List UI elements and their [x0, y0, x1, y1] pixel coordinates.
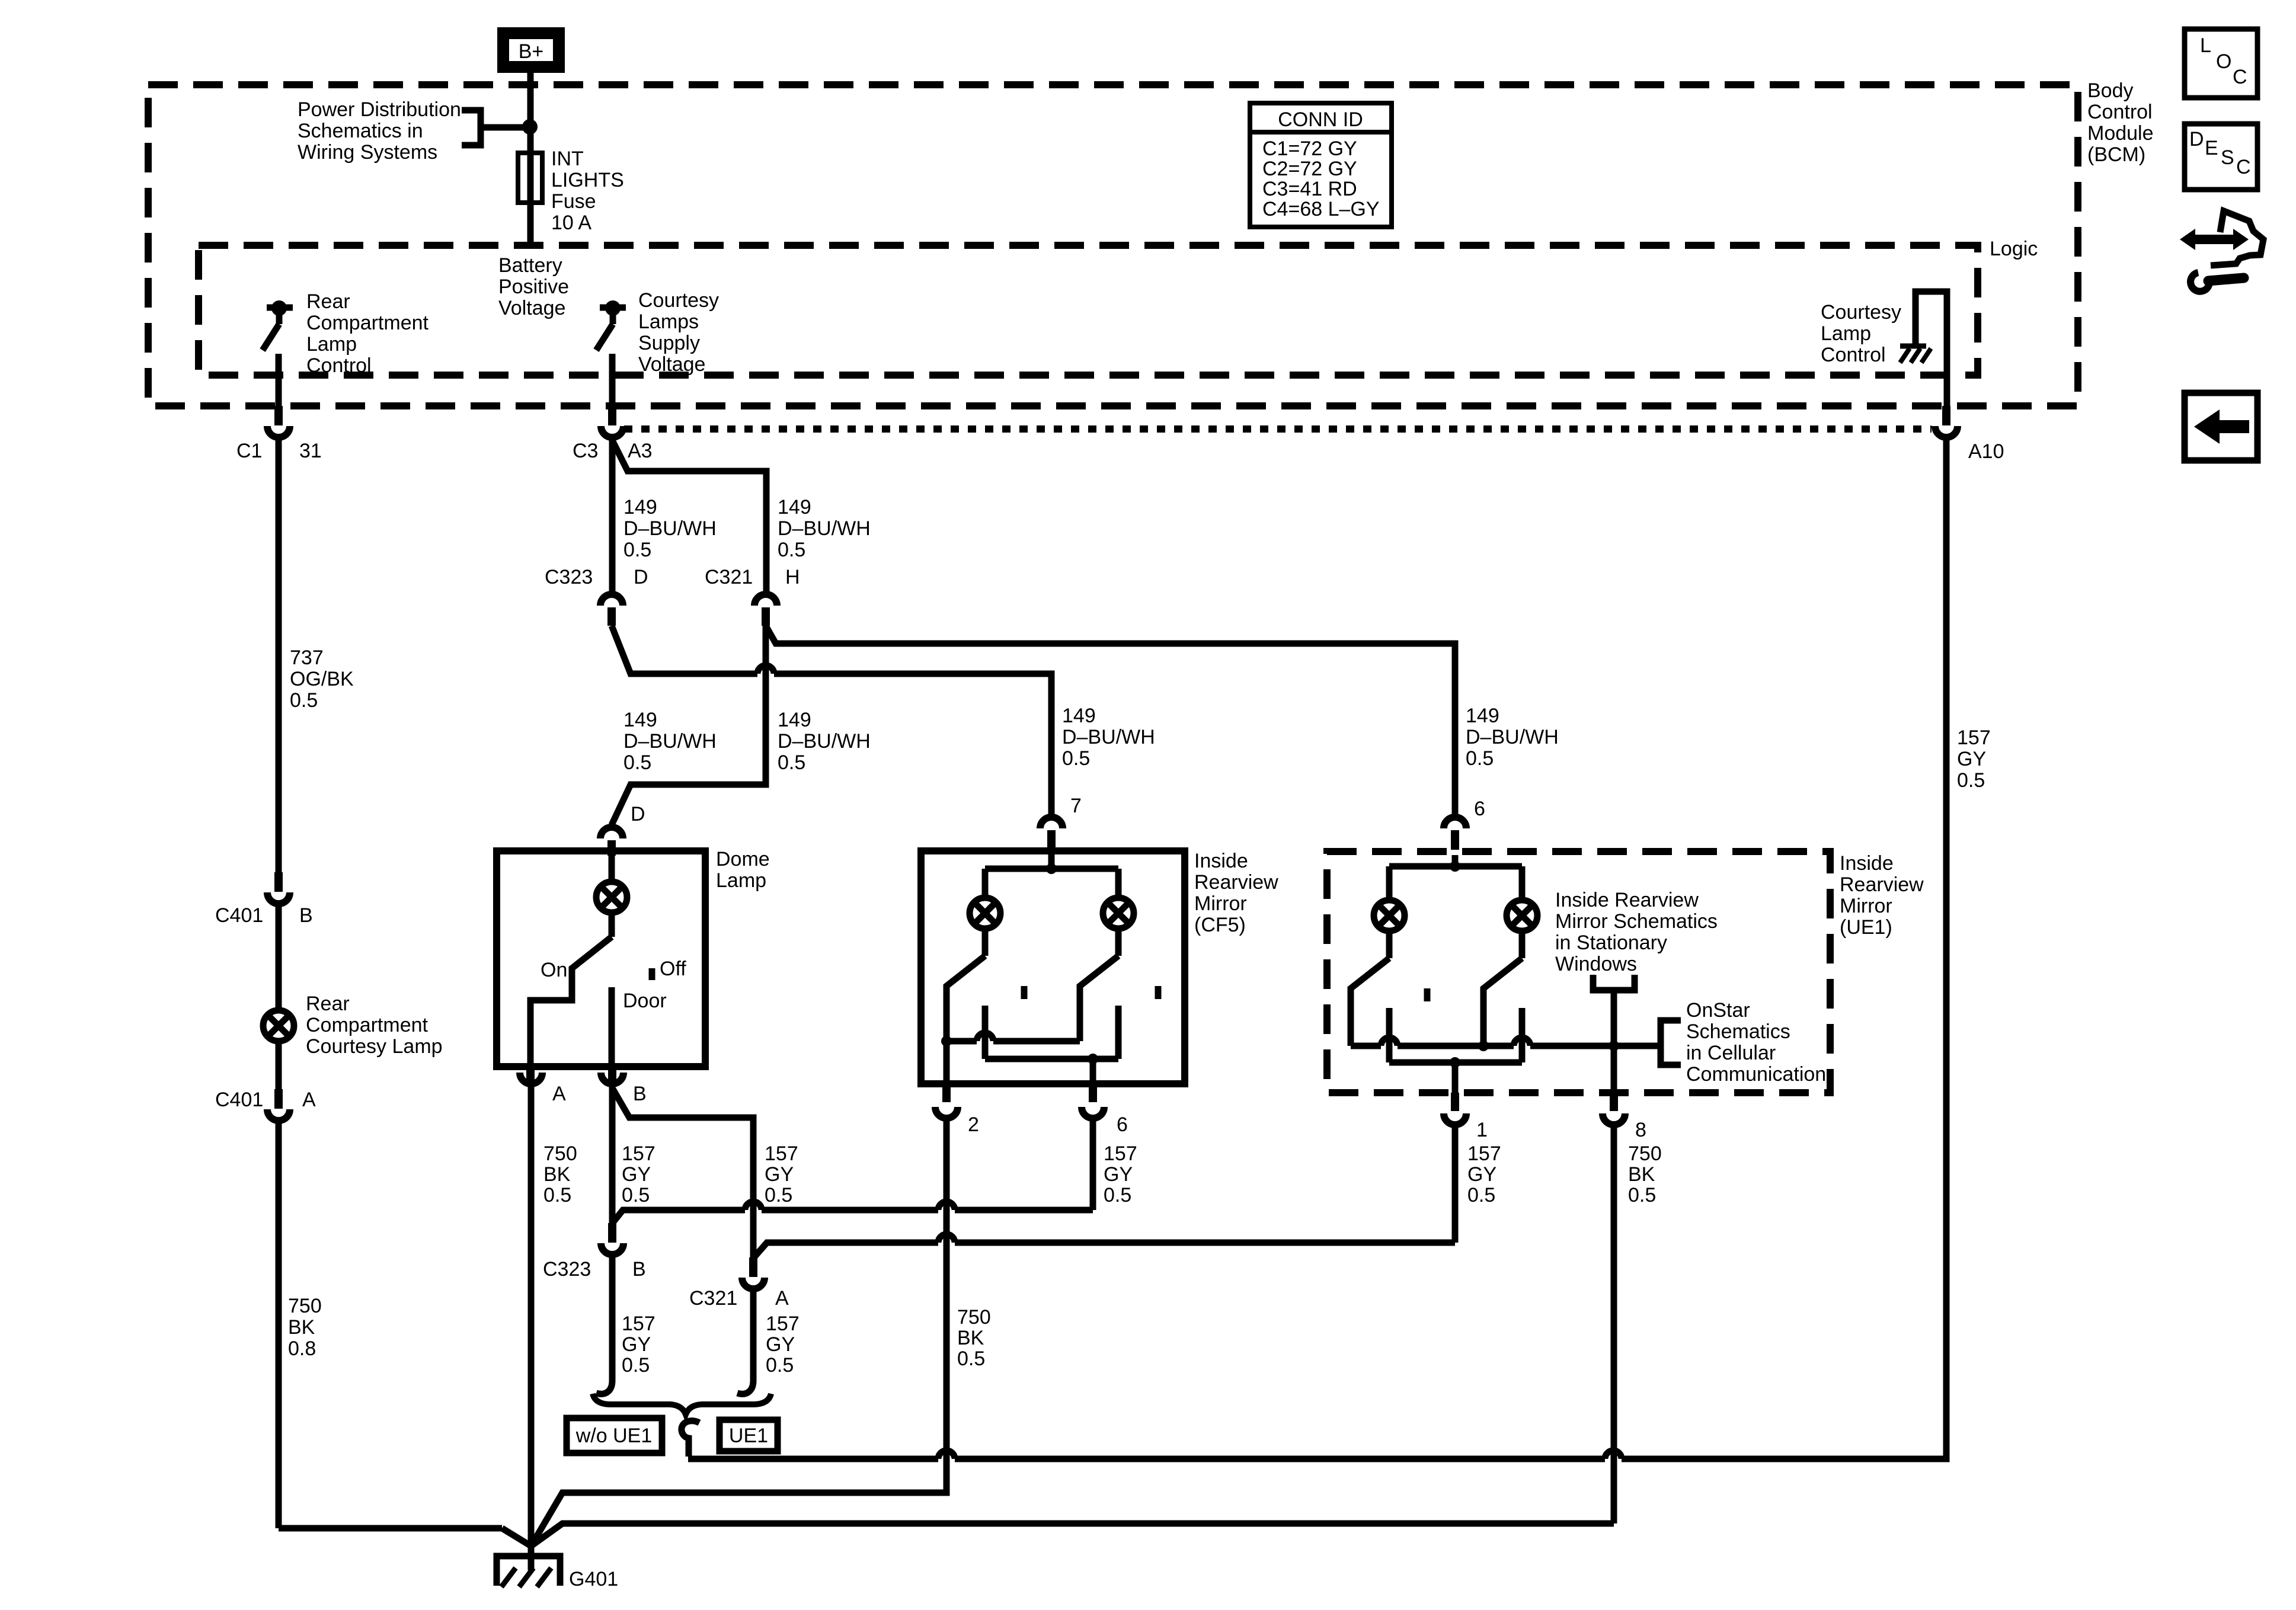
svg-text:C3: C3: [573, 440, 598, 462]
svg-text:0.5: 0.5: [1957, 769, 1985, 792]
svg-text:Courtesy: Courtesy: [638, 289, 719, 312]
wire 149 D-BU/WH C321H to UE1 pin 6: [766, 626, 1455, 814]
svg-text:C2=72 GY: C2=72 GY: [1262, 158, 1357, 180]
svg-text:157: 157: [622, 1313, 655, 1335]
connector UE1 pin 6: [1444, 817, 1466, 828]
svg-text:H: H: [785, 566, 800, 588]
connector C401 pin B: [274, 872, 283, 892]
option box UE1: [720, 1420, 778, 1451]
svg-text:Mirror: Mirror: [1840, 895, 1892, 917]
svg-text:Module: Module: [2087, 122, 2154, 145]
wire 149 D-BU/WH C323D to CF5 pin 7: [612, 626, 757, 674]
svg-text:C: C: [2233, 66, 2247, 88]
svg-text:A3: A3: [628, 440, 653, 462]
lamp: Rear Compartment Courtesy Lamp: [263, 1010, 294, 1041]
svg-text:GY: GY: [766, 1333, 795, 1356]
logic Courtesy Lamp Control ground hook: [1916, 292, 1947, 406]
svg-text:0.5: 0.5: [543, 1184, 571, 1206]
svg-text:149: 149: [623, 709, 657, 731]
svg-text:B: B: [633, 1083, 647, 1105]
svg-text:10 A: 10 A: [551, 212, 591, 234]
dome lamp bulb: [596, 882, 627, 913]
svg-text:750: 750: [1628, 1142, 1662, 1165]
svg-text:UE1: UE1: [729, 1425, 768, 1447]
svg-text:B+: B+: [519, 40, 544, 63]
connector C323 pin D: [600, 594, 623, 606]
CF5 left switch blade: [982, 929, 989, 956]
wire 750 BK 0.5 CF5 pin2 to G401: [531, 1121, 946, 1546]
svg-text:D–BU/WH: D–BU/WH: [1466, 726, 1559, 748]
connector CF5 pin 7: [1040, 817, 1063, 828]
svg-text:Schematics: Schematics: [1686, 1020, 1790, 1043]
svg-text:in Cellular: in Cellular: [1686, 1042, 1776, 1064]
back-arrow sidebar icon: [2185, 393, 2257, 460]
UE1 right lamp: [1507, 900, 1537, 931]
svg-text:D–BU/WH: D–BU/WH: [623, 730, 717, 753]
svg-text:D–BU/WH: D–BU/WH: [778, 730, 871, 753]
svg-text:6: 6: [1474, 798, 1485, 820]
svg-text:D–BU/WH: D–BU/WH: [623, 517, 717, 540]
connector C323 pin B: [608, 1223, 616, 1243]
svg-text:GY: GY: [622, 1333, 651, 1356]
CF5 internal supply node: [1048, 854, 1055, 869]
svg-text:A: A: [302, 1089, 316, 1111]
svg-text:0.8: 0.8: [288, 1337, 316, 1360]
switch: Courtesy Lamps Supply Voltage: [600, 305, 626, 311]
svg-text:D: D: [2189, 128, 2204, 151]
LOC sidebar icon: [2185, 29, 2257, 98]
wire 750 BK UE1 pin8 to G401: [1611, 1128, 1617, 1523]
svg-text:0.5: 0.5: [957, 1347, 985, 1370]
svg-text:0.5: 0.5: [1104, 1184, 1131, 1206]
dome lamp Door contact: [609, 987, 615, 1067]
connector A10: [1942, 406, 1950, 425]
connector C1 pin 31: [274, 406, 283, 425]
svg-text:A: A: [775, 1287, 789, 1310]
svg-text:Mirror: Mirror: [1194, 892, 1247, 915]
svg-text:Supply: Supply: [638, 332, 700, 354]
svg-text:157: 157: [622, 1142, 655, 1165]
svg-text:w/o UE1: w/o UE1: [575, 1425, 653, 1447]
svg-text:0.5: 0.5: [766, 1354, 794, 1377]
svg-text:Battery: Battery: [498, 254, 562, 277]
svg-text:0.5: 0.5: [622, 1354, 650, 1377]
svg-text:Door: Door: [623, 990, 667, 1012]
svg-text:C: C: [2236, 156, 2251, 178]
svg-text:GY: GY: [765, 1163, 794, 1186]
svg-text:D–BU/WH: D–BU/WH: [1062, 726, 1155, 748]
connector C321 pin A: [749, 1257, 757, 1277]
UE1 fixed contacts: [1386, 1008, 1393, 1062]
BCM A-connector dotted boundary line: [624, 425, 1932, 433]
svg-text:BK: BK: [957, 1327, 984, 1349]
svg-text:Voltage: Voltage: [638, 353, 705, 376]
svg-text:0.5: 0.5: [778, 539, 805, 561]
svg-text:149: 149: [778, 496, 811, 518]
svg-text:(CF5): (CF5): [1194, 914, 1246, 936]
wire 157 GY 0.5 below C323 B: [609, 1257, 616, 1381]
svg-text:C401: C401: [215, 1089, 263, 1111]
svg-text:Communication: Communication: [1686, 1063, 1826, 1086]
svg-text:BK: BK: [288, 1316, 315, 1339]
option pigtail: [682, 1421, 699, 1457]
svg-text:157: 157: [1467, 1142, 1501, 1165]
svg-text:750: 750: [543, 1142, 577, 1165]
svg-text:Control: Control: [2087, 101, 2153, 123]
Logic dashed box: [199, 245, 1978, 375]
connector CF5 pin 6: [1089, 1084, 1097, 1102]
svg-text:Wiring Systems: Wiring Systems: [298, 141, 437, 164]
wire switch to C1: [276, 354, 282, 406]
wire C401B to lamp: [276, 907, 282, 1007]
CF5 right switch blade: [1115, 929, 1122, 956]
svg-text:OnStar: OnStar: [1686, 999, 1750, 1022]
UE1 internal supply node: [1452, 855, 1459, 866]
ground symbol G401: [497, 1556, 560, 1586]
svg-text:D: D: [631, 803, 645, 825]
UE1 right switch blade: [1519, 931, 1526, 958]
logic internal ground symbol: [1900, 344, 1926, 349]
svg-text:Fuse: Fuse: [551, 190, 596, 213]
svg-text:Courtesy Lamp: Courtesy Lamp: [306, 1035, 443, 1058]
svg-text:0.5: 0.5: [623, 751, 651, 774]
svg-text:Power Distribution: Power Distribution: [298, 98, 461, 121]
svg-text:G401: G401: [569, 1568, 618, 1590]
ground junction: [528, 1546, 535, 1570]
svg-text:157: 157: [1104, 1142, 1137, 1165]
wire option line to BCM A10: [688, 1456, 938, 1462]
UE1 switch tick: [1424, 988, 1431, 1001]
connector CF5 pin 2: [944, 1041, 950, 1084]
svg-text:0.5: 0.5: [1628, 1184, 1656, 1206]
Inside Rearview Mirror (CF5) box: [921, 851, 1185, 1084]
svg-text:B: B: [632, 1258, 646, 1281]
svg-text:Rear: Rear: [306, 993, 350, 1015]
svg-text:31: 31: [299, 440, 322, 462]
wire 157 GY 0.5 below C321 A: [750, 1292, 757, 1381]
svg-text:A: A: [552, 1083, 566, 1105]
bracket: OnStar Schematics in Cellular Communication: [1661, 1020, 1681, 1065]
svg-text:GY: GY: [1104, 1163, 1133, 1186]
svg-text:149: 149: [778, 709, 811, 731]
svg-text:E: E: [2205, 137, 2218, 159]
svg-text:C321: C321: [705, 566, 753, 588]
wire B+ to INT LIGHTS fuse to Logic: [527, 73, 534, 248]
svg-text:Off: Off: [660, 958, 686, 980]
svg-text:149: 149: [623, 496, 657, 518]
svg-text:6: 6: [1117, 1113, 1128, 1136]
wire 149 D-BU/WH to C323 D: [609, 440, 616, 591]
svg-text:0.5: 0.5: [1466, 747, 1494, 770]
CONN ID table: [1250, 103, 1392, 227]
svg-text:737: 737: [290, 646, 324, 669]
wire 157 GY dome B down to C323 B: [609, 1087, 616, 1223]
svg-text:BK: BK: [543, 1163, 571, 1186]
wire bracket to tap: [481, 124, 526, 131]
connector UE1 pin 1: [1451, 1093, 1459, 1111]
svg-text:Schematics in: Schematics in: [298, 120, 423, 142]
Inside Rearview Mirror (UE1) dashed box: [1327, 852, 1830, 1093]
UE1 left lamp: [1374, 900, 1405, 931]
CF5 right lamp: [1103, 898, 1134, 929]
battery feed B+ box: [503, 33, 559, 67]
Body Control Module (BCM) dashed box: [148, 85, 2078, 406]
svg-text:C323: C323: [545, 566, 593, 588]
svg-text:Control: Control: [306, 354, 372, 377]
wire into dome lamp: [609, 854, 615, 882]
CF5 switch ticks: [1021, 986, 1028, 999]
svg-text:Lamp: Lamp: [716, 869, 766, 892]
switch: Rear Compartment Lamp Control: [267, 305, 293, 311]
UE1 left switch blade: [1386, 931, 1393, 958]
svg-text:GY: GY: [622, 1163, 651, 1186]
CF5 pin 6 drop: [1090, 1059, 1096, 1084]
svg-text:Dome: Dome: [716, 848, 770, 870]
wire 750 BK 0.5 dome A to G401: [528, 1087, 535, 1546]
wire 157 GY dome B right to C321 A drop: [612, 1088, 753, 1257]
svg-text:Inside: Inside: [1840, 852, 1894, 875]
svg-text:A10: A10: [1968, 440, 2004, 463]
svg-text:Voltage: Voltage: [498, 297, 565, 319]
connector C401 pin A: [274, 1089, 283, 1109]
svg-text:Body: Body: [2087, 79, 2134, 102]
fuse INT LIGHTS 10 A: [518, 153, 542, 203]
dome lamp Off tick: [649, 968, 655, 980]
svg-text:Inside Rearview: Inside Rearview: [1555, 889, 1699, 911]
connector dome pin B: [608, 1067, 616, 1083]
svg-text:C1: C1: [236, 440, 262, 462]
svg-text:0.5: 0.5: [778, 751, 805, 774]
node: power distribution tap: [522, 119, 538, 135]
svg-text:157: 157: [766, 1313, 800, 1335]
svg-text:INT: INT: [551, 148, 584, 170]
svg-text:750: 750: [288, 1295, 322, 1317]
svg-text:L: L: [2200, 34, 2211, 57]
svg-text:Courtesy: Courtesy: [1821, 301, 1901, 324]
svg-text:Inside: Inside: [1194, 850, 1248, 872]
connector C321 pin H: [754, 594, 777, 606]
svg-text:7: 7: [1070, 795, 1082, 817]
svg-text:0.5: 0.5: [1062, 747, 1090, 770]
svg-text:D–BU/WH: D–BU/WH: [778, 517, 871, 540]
UE1 main rail: [1351, 1043, 1381, 1049]
CF5 fixed contacts: [982, 1006, 989, 1059]
wire 737 OG/BK 0.5: [276, 440, 282, 872]
wire lamp to C401A: [276, 1044, 282, 1089]
connector D at dome lamp: [600, 827, 623, 838]
svg-text:C401: C401: [215, 904, 263, 927]
svg-text:D: D: [634, 566, 648, 588]
svg-text:Rearview: Rearview: [1840, 873, 1924, 896]
DESC sidebar icon: [2185, 124, 2257, 190]
off-page bracket: Power Distribution Schematics: [462, 110, 481, 145]
svg-text:C323: C323: [543, 1258, 591, 1281]
CF5 rail to pin 2: [946, 1038, 977, 1045]
svg-text:Positive: Positive: [498, 276, 569, 298]
svg-text:BK: BK: [1628, 1163, 1655, 1186]
UE1 pin 1 drop: [1452, 1062, 1459, 1093]
svg-text:Windows: Windows: [1555, 953, 1637, 975]
wire 149 D-BU/WH to C321 H: [612, 440, 766, 591]
wire switch to C3: [609, 354, 616, 406]
svg-text:Control: Control: [1821, 344, 1886, 366]
svg-text:in Stationary: in Stationary: [1555, 932, 1667, 954]
svg-text:0.5: 0.5: [765, 1184, 792, 1206]
svg-text:(BCM): (BCM): [2087, 143, 2145, 166]
svg-text:Logic: Logic: [1990, 238, 2038, 260]
UE1 lower rail: [1389, 1060, 1522, 1066]
svg-text:Lamp: Lamp: [306, 333, 357, 356]
svg-text:On: On: [541, 959, 567, 981]
svg-text:1: 1: [1476, 1119, 1488, 1141]
svg-text:(UE1): (UE1): [1840, 916, 1892, 939]
svg-text:149: 149: [1062, 705, 1096, 727]
wire 157 GY UE1 pin1 to C321 A: [1452, 1128, 1459, 1243]
svg-text:C1=72 GY: C1=72 GY: [1262, 137, 1357, 160]
wire 157 GY CF5 pin6 to C323 B: [1090, 1121, 1096, 1210]
svg-text:Lamps: Lamps: [638, 311, 699, 333]
bracket: Inside Rearview Mirror Schematics in Stationary Windows: [1593, 975, 1635, 990]
CF5 lower rail: [985, 1056, 1118, 1062]
svg-text:750: 750: [957, 1306, 991, 1329]
svg-text:0.5: 0.5: [623, 539, 651, 561]
svg-text:Rear: Rear: [306, 290, 350, 313]
svg-text:0.5: 0.5: [1467, 1184, 1495, 1206]
svg-text:C3=41 RD: C3=41 RD: [1262, 178, 1357, 200]
svg-text:Compartment: Compartment: [306, 312, 429, 334]
svg-text:B: B: [299, 904, 313, 927]
svg-text:GY: GY: [1467, 1163, 1496, 1186]
svg-text:157: 157: [1957, 726, 1991, 749]
option box w/o UE1: [567, 1418, 662, 1453]
svg-text:GY: GY: [1957, 748, 1986, 770]
wire 750 BK 0.8 to G401: [276, 1124, 282, 1528]
svg-text:157: 157: [765, 1142, 798, 1165]
svg-text:8: 8: [1635, 1119, 1646, 1141]
svg-text:OG/BK: OG/BK: [290, 668, 354, 690]
svg-text:Compartment: Compartment: [306, 1014, 428, 1036]
svg-text:149: 149: [1466, 705, 1499, 727]
connector C3 pin A3: [608, 406, 616, 425]
svg-text:Rearview: Rearview: [1194, 871, 1278, 894]
wire 149 D-BU/WH C321H down to dome lamp D: [612, 626, 766, 825]
CF5 left lamp: [970, 898, 1000, 929]
svg-text:0.5: 0.5: [622, 1184, 650, 1206]
svg-text:C4=68 L–GY: C4=68 L–GY: [1262, 198, 1380, 220]
option brace w/o UE1 / UE1: [593, 1394, 771, 1414]
svg-text:C321: C321: [689, 1287, 737, 1310]
svg-text:Mirror Schematics: Mirror Schematics: [1555, 910, 1718, 933]
svg-text:LIGHTS: LIGHTS: [551, 169, 624, 191]
svg-text:S: S: [2221, 146, 2234, 169]
svg-text:2: 2: [968, 1113, 979, 1136]
Dome Lamp box: [497, 851, 705, 1067]
connector dome pin A: [526, 1067, 535, 1083]
svg-text:0.5: 0.5: [290, 689, 318, 712]
dome lamp switch blade: [609, 916, 615, 937]
connector UE1 pin 8: [1611, 1046, 1617, 1093]
svg-text:O: O: [2216, 50, 2231, 73]
svg-text:Lamp: Lamp: [1821, 322, 1871, 345]
svg-text:CONN ID: CONN ID: [1278, 108, 1363, 131]
wrench-arrow sidebar icon: [2180, 229, 2249, 250]
